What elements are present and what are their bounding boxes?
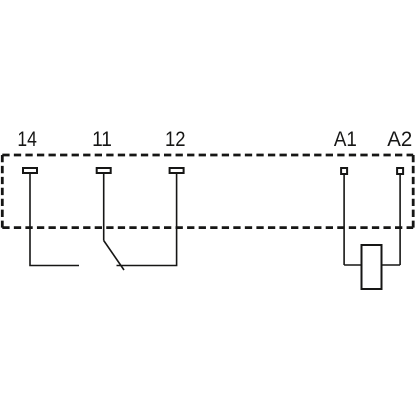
terminal A1 (341, 168, 347, 174)
wire from terminal 11 (common) (103, 174, 105, 241)
wire from terminal A2 (382, 175, 400, 265)
wire from terminal A1 (344, 175, 361, 265)
wire from terminal 12 (117, 174, 178, 266)
switch blade 11 to 12 (104, 241, 124, 271)
svg-text:11: 11 (92, 126, 112, 151)
terminal A2 (397, 168, 403, 174)
wire from terminal 14 (29, 174, 79, 266)
svg-text:A1: A1 (334, 126, 357, 151)
terminal 11 (97, 168, 111, 173)
relay outline dashed box (2, 155, 413, 228)
terminal 12 (170, 168, 184, 173)
coil (362, 245, 382, 289)
svg-text:14: 14 (17, 126, 37, 151)
svg-text:A2: A2 (387, 126, 412, 151)
terminal 14 (23, 168, 37, 173)
svg-text:12: 12 (165, 126, 186, 151)
